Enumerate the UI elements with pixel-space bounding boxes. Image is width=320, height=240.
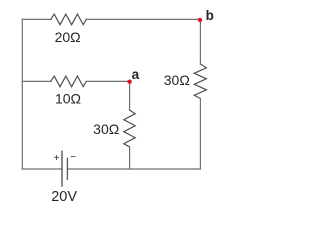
resistor R-30 middle zigzag — [124, 110, 135, 147]
svg-text:−: − — [70, 152, 76, 163]
wire left rail — [21, 19, 23, 169]
svg-text:30Ω: 30Ω — [164, 72, 190, 88]
wire middle branch lower stub — [129, 147, 131, 169]
node a dot — [127, 80, 131, 84]
wire bottom rail right segment — [67, 168, 200, 170]
svg-text:10Ω: 10Ω — [55, 91, 81, 107]
node b dot — [198, 18, 202, 22]
wire right rail upper segment — [199, 19, 201, 64]
svg-text:b: b — [206, 8, 214, 23]
svg-text:a: a — [132, 67, 140, 82]
wire middle rail right segment — [86, 80, 129, 82]
battery V1 negative plate (short) — [66, 158, 68, 180]
svg-text:+: + — [54, 153, 60, 164]
svg-text:20Ω: 20Ω — [55, 29, 81, 45]
resistor R-20 zigzag — [51, 14, 86, 25]
wire right rail lower segment — [199, 99, 201, 170]
svg-text:20V: 20V — [51, 189, 77, 205]
wire bottom rail left segment — [22, 168, 62, 170]
wire middle branch upper stub — [129, 81, 131, 110]
wire top rail right segment — [86, 18, 200, 20]
svg-text:30Ω: 30Ω — [93, 121, 119, 137]
resistor R-30 right zigzag — [194, 64, 206, 99]
wire top rail left segment — [22, 18, 51, 20]
battery V1 positive plate (long) — [61, 151, 63, 187]
wire middle rail left segment — [22, 80, 51, 82]
resistor R-10 zigzag — [51, 76, 86, 87]
